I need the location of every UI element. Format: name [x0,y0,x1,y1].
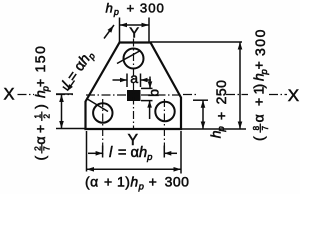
svg-text:α: α [251,114,267,122]
dimension top h_p+300 [120,18,150,43]
svg-text:1: 1 [33,113,42,118]
svg-text:α: α [32,136,48,144]
hole bottom-left (anchor bolt hole) [93,103,112,122]
hole bottom-right (anchor bolt hole) [155,102,174,121]
svg-text:): ) [32,104,48,109]
svg-text:(: ( [32,156,48,161]
svg-text:l = αhp: l = αhp [109,145,152,163]
hole top slash [117,51,141,64]
hole bottom-left slash [87,99,109,112]
dimension left (2/7a+1/2)h_p+150 [56,95,86,129]
hole bottom-left centerline [102,99,104,157]
svg-text:Y: Y [129,25,139,41]
dimension a (column width) [113,74,152,88]
dimension right outer (8/7a+1)h_p+300 [151,42,243,129]
dimension slant l = alpha h_p [56,25,114,94]
dimension bottom l = alpha h_p [88,146,177,158]
svg-text:300: 300 [252,28,268,56]
svg-text:150: 150 [32,45,48,73]
svg-text:+: + [32,79,48,87]
label left (2/7a+1/2)h_p+150 (rotated) [32,45,52,161]
svg-text:p: p [216,126,227,132]
svg-text:X: X [3,86,14,104]
svg-text:+: + [251,61,267,69]
dimension b (column height) [141,77,153,120]
svg-text:): ) [251,84,267,89]
svg-text:250: 250 [213,80,229,105]
dimension right inner h_p+250 [181,100,246,129]
svg-text:(α + 1)hp + 300: (α + 1)hp + 300 [85,174,189,193]
svg-text:7: 7 [261,125,270,130]
svg-text:8: 8 [252,125,261,130]
Y axis (vertical dash-dot) [133,39,135,130]
column section (filled square) [127,90,141,101]
hole top (anchor bolt hole) [124,49,144,69]
svg-text:+: + [251,98,267,106]
svg-text:2: 2 [43,113,52,118]
svg-text:(: ( [251,136,267,141]
svg-text:7: 7 [43,146,52,151]
label h_p+250 (rotated) [208,126,228,138]
svg-text:hp + 300: hp + 300 [106,1,165,18]
svg-text:+: + [32,125,48,133]
svg-text:2: 2 [33,146,42,151]
svg-text:a: a [130,70,138,86]
label right outer (8/7a+1)h_p+300 (rotated) [251,28,271,141]
plate outline (pentagon base plate) [86,43,182,130]
svg-text:l = αhp: l = αhp [59,48,97,92]
svg-text:X: X [288,86,299,105]
dimension bottom width (a+1)h_p+300 [87,131,182,174]
X axis (horizontal dash-dot) [18,94,288,96]
hole bottom-right centerline [163,99,165,157]
svg-text:+: + [213,112,229,120]
svg-text:b: b [146,89,161,97]
